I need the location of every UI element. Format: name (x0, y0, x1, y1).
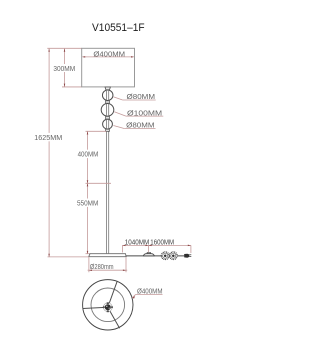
base (side view disc) (89, 254, 126, 257)
hub tabs (103, 302, 113, 312)
collar below B3 (106, 129, 110, 131)
wire: short extension at base top (86, 253, 91, 255)
wire: extension line at y=183.3 (86, 182, 112, 184)
neck fitting under shade (105, 87, 110, 90)
svg-text:300MM: 300MM (53, 64, 75, 73)
collar between B1 and B2 (106, 101, 110, 103)
svg-text:V10551–1F: V10551–1F (92, 22, 145, 34)
label Ø400MM (bottom view) (132, 289, 162, 299)
label Ø100MM (ball B2) (114, 108, 163, 117)
hub ring (103, 303, 112, 312)
dimension 300MM (shade height) (52, 49, 76, 87)
svg-text:400MM: 400MM (78, 150, 99, 159)
glass ball B3 (Ø80) (103, 119, 113, 129)
label Ø80MM (ball B3) (113, 121, 155, 130)
dimension Ø400MM (shade width) (82, 49, 134, 58)
spoke (down-right) (108, 307, 120, 328)
plug with prongs (184, 254, 191, 258)
svg-text:Ø280mm: Ø280mm (90, 264, 114, 271)
glass ball B1 (Ø80) (102, 90, 113, 101)
svg-text:Ø400MM: Ø400MM (93, 49, 125, 58)
wire: floor extension line to 1625 dimension (48, 256, 89, 258)
svg-text:Ø400MM: Ø400MM (137, 289, 163, 296)
bottom view: inner circle (91, 288, 125, 322)
plug knurled disc 1 (161, 252, 169, 260)
bottom view: outer circle (Ø400) (83, 280, 133, 330)
plug knurled disc 2 (170, 252, 178, 260)
label Ø80MM (ball B1) (114, 92, 156, 101)
svg-text:1040MM: 1040MM (125, 240, 150, 247)
wire: top extension line (47, 47, 81, 49)
dimension Ø280mm (base diameter) (88, 257, 128, 272)
pole (double line rod) (106, 90, 108, 254)
shade (drum, front view) (82, 48, 135, 87)
hub body (105, 304, 111, 310)
svg-text:1600MM: 1600MM (150, 240, 174, 247)
wire: shade bottom extension line (62, 86, 82, 88)
dimension 1040MM (cord to switch) (122, 240, 149, 253)
svg-text:550MM: 550MM (77, 198, 98, 207)
cord (126, 255, 184, 257)
collar between B2 and B3 (106, 116, 110, 119)
svg-text:Ø100MM: Ø100MM (127, 108, 162, 117)
spoke (left) (83, 307, 108, 308)
svg-text:1625MM: 1625MM (34, 133, 62, 142)
svg-text:Ø80MM: Ø80MM (126, 121, 154, 130)
dimension 550MM (lower pole segment) (76, 183, 100, 254)
glass ball B2 (Ø100) (101, 104, 114, 117)
svg-text:Ø80MM: Ø80MM (127, 92, 156, 101)
dimension 400MM (upper pole segment) (77, 131, 100, 183)
spoke (up) (108, 281, 118, 307)
dimension 1600MM (switch to plug) (149, 240, 191, 253)
wire: extension line at y=131.3 (86, 130, 107, 132)
inline foot switch (143, 252, 154, 256)
dimension 1625MM (total height) (33, 49, 63, 257)
